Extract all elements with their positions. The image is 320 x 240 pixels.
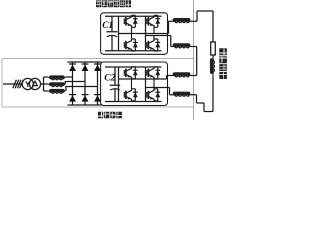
wire phase b to rectifier leg2 (65, 82, 85, 85)
filter inductor L4 (172, 92, 191, 97)
box1 leg2 wire (145, 16, 147, 51)
box2 bottom dc rail (105, 101, 162, 103)
filter inductor L2 (172, 43, 191, 48)
wire transformer output bus (41, 77, 44, 91)
capacitor C2 (110, 67, 120, 102)
wire box1 outA to filter (169, 20, 173, 22)
wire box2 outB to filter (170, 94, 173, 96)
transformer Y mark (26, 82, 30, 87)
wire L1 to top node (191, 11, 213, 21)
wire L4 to bottom route (191, 95, 213, 112)
table border gray vertical line (193, 0, 195, 120)
diode D6 (94, 95, 101, 102)
box2 mid wire out B (146, 88, 170, 95)
inductor La (phase a) (48, 75, 65, 79)
box1 top dc rail (105, 15, 162, 17)
IGBT Q5 (124, 67, 137, 79)
transformer delta mark (33, 81, 38, 85)
wire L3 to cascade node (191, 75, 197, 77)
wire load right edge top (212, 11, 214, 42)
rectifier bottom rail (68, 104, 102, 106)
diode D4 (82, 95, 89, 102)
rectifier leg1 wire (72, 62, 74, 105)
capacitor C1 (107, 16, 118, 51)
wire phase a to rectifier leg1 (65, 76, 72, 78)
transformer T1 secondary circle delta (29, 78, 40, 89)
grid hatch marks (13, 80, 23, 89)
box1 leg1 wire (118, 16, 120, 51)
table border gray left edge (1, 59, 3, 108)
box2 top dc rail (105, 66, 162, 68)
IGBT Q6 (147, 67, 160, 88)
wire phase c to rectifier leg3 (66, 87, 98, 92)
diode D5 (94, 64, 101, 71)
rectifier leg2 wire (84, 62, 86, 105)
wire phase stubs (44, 77, 49, 91)
IGBT Q8 (147, 88, 160, 101)
fuse F1 (211, 42, 216, 55)
svg-text:C1: C1 (102, 21, 113, 31)
diode D2 (69, 95, 76, 102)
module box 2 (101, 62, 168, 106)
inductor Lc (phase c) (48, 89, 65, 93)
wire fuse to load coil (212, 55, 214, 58)
box2 leg1 wire (118, 67, 120, 102)
IGBT Q7 (124, 79, 137, 102)
box1 bottom dc rail (105, 50, 162, 52)
inductor Lb (phase b) (48, 82, 65, 86)
caption text bottom (blurred chinese) (98, 112, 122, 118)
box1 mid wire out A (119, 21, 169, 33)
table border gray horizontal bottom of lower cell (2, 106, 193, 108)
wire cascade link L2 to L3 (191, 47, 197, 76)
module box 1 (101, 13, 168, 55)
wire grid feeder (3, 83, 22, 85)
load inductor L5 (210, 58, 215, 77)
table border gray horizontal top of lower cell (2, 58, 193, 60)
wire load coil to bottom (212, 77, 214, 112)
diode D1 (69, 64, 76, 71)
transformer T1 primary circle Y (22, 78, 33, 89)
IGBT Q4 (147, 36, 160, 52)
wire box1 outB to filter (171, 46, 172, 48)
filter inductor L3 (172, 72, 191, 77)
svg-text:C2: C2 (104, 74, 115, 84)
IGBT Q3 (124, 34, 137, 52)
label text right side (vertical blurred chinese) (219, 48, 227, 79)
filter inductor L1 (172, 18, 191, 23)
wire box2 outA to filter (167, 75, 173, 77)
caption text top (blurred chinese) (96, 0, 131, 7)
box2 mid wire out A (119, 76, 167, 80)
diode D3 (82, 64, 89, 71)
IGBT Q2 (147, 15, 160, 33)
box1 mid wire out B (146, 36, 171, 47)
box2 leg2 wire (145, 67, 147, 102)
rectifier top rail (68, 61, 102, 63)
rectifier leg3 wire (97, 62, 99, 105)
IGBT Q1 (124, 15, 137, 33)
